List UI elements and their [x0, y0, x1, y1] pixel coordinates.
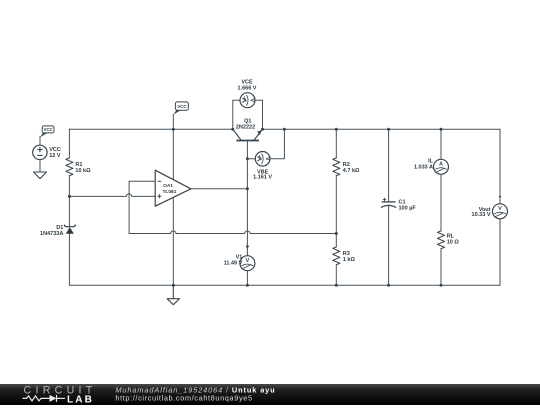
op-amp U1 OA1 TL081	[155, 170, 191, 206]
svg-text:10 kΩ: 10 kΩ	[75, 168, 91, 174]
wire zener D1 to bottom rail	[68, 234, 70, 286]
wire inverting input down to feedback line	[128, 181, 130, 233]
svg-text:LAB: LAB	[67, 394, 94, 405]
node junction R3 / bottom rail	[335, 284, 338, 287]
wire top rail output (right segment)	[263, 128, 501, 130]
svg-text:2N2222: 2N2222	[236, 125, 255, 131]
wire RL bottom to bottom rail	[440, 249, 442, 286]
wire op-amp output to base node	[191, 188, 248, 190]
ammeter IL	[434, 159, 449, 174]
node junction op-amp V- / bottom rail	[172, 284, 175, 287]
wire R1 bottom to zener node A	[68, 176, 70, 227]
svg-text:V: V	[249, 98, 255, 102]
voltage source VCC 12V	[33, 145, 47, 159]
wire R3 bottom to bottom rail	[335, 265, 337, 286]
net flag VCC (op-amp supply)	[174, 102, 189, 115]
wire top rail VCC (left segment)	[69, 128, 232, 130]
wire VCE meter left leg	[233, 100, 240, 129]
wire Vout meter bottom to bottom rail	[499, 219, 501, 285]
node junction RL / bottom rail	[440, 284, 443, 287]
node junction VCC flag / top rail	[172, 128, 175, 131]
wire op-amp inverting input stub	[129, 180, 155, 182]
wire Q1 base vertical down through V1 to bottom rail	[246, 141, 248, 286]
svg-text:100 µF: 100 µF	[399, 206, 417, 212]
svg-text:10 Ω: 10 Ω	[447, 240, 460, 246]
svg-text:A: A	[439, 162, 443, 168]
svg-text:http://circuitlab.com/caht8unq: http://circuitlab.com/caht8unqa9ye5	[115, 394, 252, 403]
svg-text:V: V	[498, 206, 502, 212]
node junction R2 top / output rail	[335, 128, 338, 131]
svg-text:4.7 kΩ: 4.7 kΩ	[343, 168, 360, 174]
logo resistor-diode symbol line	[23, 395, 66, 402]
resistor R1	[66, 158, 73, 176]
resistor R3	[333, 247, 340, 265]
wire VCC source flag lead	[39, 137, 41, 146]
node A junction R1/D1/op-amp input	[68, 195, 71, 198]
node junction Q1 emitter	[261, 128, 264, 131]
wire VBE meter right leg to emitter rail	[270, 129, 285, 159]
capacitor C1	[381, 198, 396, 208]
wire C1 bottom to bottom rail	[388, 206, 390, 285]
svg-text:VCC: VCC	[44, 127, 53, 132]
wire IL branch top	[440, 129, 442, 159]
node junction C1 top / output rail	[387, 128, 390, 131]
svg-text:1.033 A: 1.033 A	[414, 165, 433, 171]
svg-text:VCC: VCC	[177, 104, 186, 109]
node junction VBE left leg / base	[246, 157, 249, 160]
voltmeter V1 (op-amp output)	[240, 246, 255, 271]
wire R2 bottom to tap node	[335, 176, 337, 234]
node junction IL top / output rail	[440, 128, 443, 131]
node junction V1 / bottom rail	[246, 284, 249, 287]
voltmeter Vout	[493, 196, 508, 219]
node junction feedback / divider tap	[335, 232, 338, 235]
transistor Q1 2N2222	[233, 129, 263, 140]
wire VBE meter left leg	[247, 158, 255, 160]
node junction op-amp output / base	[246, 187, 249, 190]
resistor RL	[438, 231, 445, 249]
zener diode D1 1N4733A	[64, 225, 76, 234]
wire bottom rail ground net	[69, 284, 500, 286]
wire VCC source to ground	[39, 160, 41, 172]
svg-text:11.49 V: 11.49 V	[224, 260, 243, 266]
svg-text:TL081: TL081	[163, 189, 177, 195]
voltmeter VCE (across Q1)	[240, 93, 255, 108]
node junction C1 / bottom rail	[387, 284, 390, 287]
wire op-amp V- pin down to bottom rail	[172, 198, 174, 286]
wire VCE meter right leg	[255, 100, 263, 129]
wire node A to op-amp non-inverting input (hops over feedback drop)	[69, 194, 155, 197]
wire tap node to R3 top	[335, 234, 337, 247]
svg-text:1 kΩ: 1 kΩ	[343, 257, 356, 263]
wire left branch vertical (VCC rail to R1)	[68, 129, 70, 158]
svg-text:V: V	[246, 258, 250, 264]
svg-text:1.161 V: 1.161 V	[253, 174, 272, 180]
wire right output branch down to Vout meter	[499, 129, 501, 204]
node junction VBE right leg / output rail	[283, 128, 286, 131]
node junction Q1 collector	[231, 128, 234, 131]
svg-text:1N4733A: 1N4733A	[40, 231, 63, 237]
svg-text:V: V	[264, 157, 270, 161]
net flag VCC (at source)	[40, 126, 54, 137]
wire IL ammeter to RL	[440, 174, 442, 231]
wire C1 branch top	[388, 129, 390, 202]
svg-text:10.33 V: 10.33 V	[472, 212, 491, 218]
ground (below VCC source)	[34, 172, 47, 179]
svg-text:12 V: 12 V	[49, 153, 61, 159]
voltmeter VBE (base-emitter)	[255, 152, 270, 167]
wire VCC flag to op-amp V+ pin	[172, 115, 174, 180]
wire feedback line to divider tap (hops over two verticals)	[129, 231, 336, 234]
svg-text:1.666 V: 1.666 V	[238, 85, 257, 91]
ground (main, below bottom rail)	[167, 285, 179, 305]
resistor R2	[333, 158, 340, 176]
wire R2 branch top	[335, 129, 337, 158]
svg-text:OA1: OA1	[163, 183, 173, 189]
